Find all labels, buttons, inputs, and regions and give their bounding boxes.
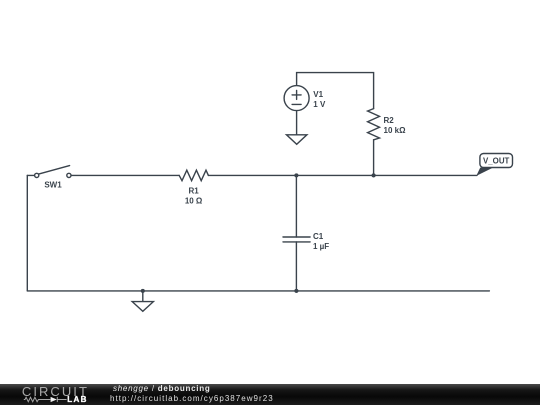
footer bar — [0, 384, 540, 405]
wire: left stub into SW1 — [27, 174, 34, 176]
resistor R2 — [368, 109, 406, 140]
svg-text:1 µF: 1 µF — [313, 242, 329, 251]
wire: SW1 right terminal to R1 — [71, 174, 179, 176]
ground (under V1) — [287, 135, 307, 145]
node: junction R2/output — [372, 173, 376, 177]
node: junction ground rail / ground symbol — [141, 289, 145, 293]
resistor R1 — [179, 170, 208, 205]
wire: R2 bottom to output node — [373, 140, 375, 176]
net flag V_OUT — [476, 154, 512, 176]
voltage source V1 — [284, 86, 326, 111]
svg-text:C1: C1 — [313, 232, 324, 241]
svg-text:LAB: LAB — [67, 395, 88, 404]
svg-text:10 Ω: 10 Ω — [185, 196, 203, 205]
wire: V1 minus to ground stem — [296, 111, 298, 135]
node: junction C1 / ground rail — [294, 289, 298, 293]
ground (bottom rail) — [132, 291, 153, 311]
svg-text:R1: R1 — [188, 187, 199, 196]
svg-text:10 kΩ: 10 kΩ — [384, 126, 407, 135]
wire: bottom ground rail — [27, 290, 489, 292]
svg-text:V_OUT: V_OUT — [483, 156, 509, 165]
wire: left vertical down from SW1 — [26, 175, 28, 291]
footer text: author / title — [113, 384, 277, 405]
svg-text:R2: R2 — [384, 116, 395, 125]
svg-text:SW1: SW1 — [44, 180, 62, 189]
CircuitLab logo — [0, 384, 110, 405]
capacitor C1 — [283, 232, 329, 251]
wire: node to C1 top plate — [295, 175, 297, 237]
wire: top net from V1 to R2 — [297, 73, 374, 109]
wire: main output node (R1 right to V_OUT) — [208, 174, 477, 176]
wire: C1 bottom plate to ground rail — [295, 242, 297, 291]
node: junction R1/C1/output — [294, 173, 298, 177]
switch SW1 — [35, 166, 71, 190]
svg-text:V1: V1 — [313, 90, 323, 99]
svg-text:1 V: 1 V — [313, 100, 326, 109]
